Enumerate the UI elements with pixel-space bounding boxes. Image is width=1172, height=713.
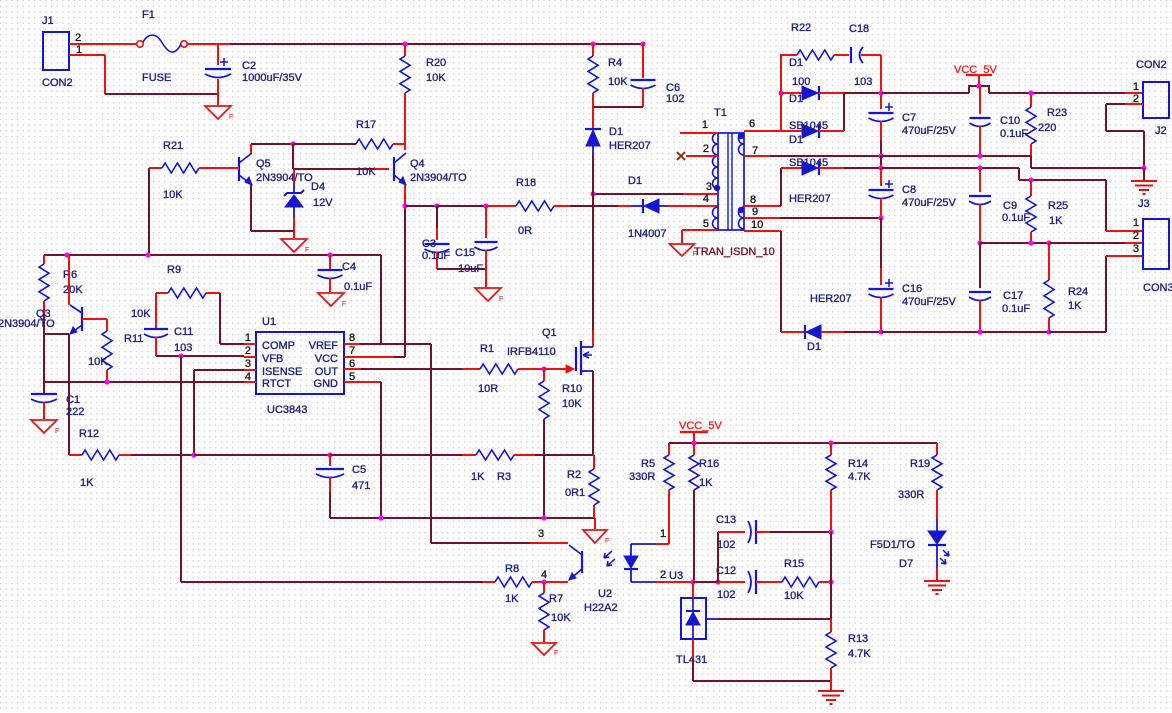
wire R6 to RTCT node — [43, 313, 45, 394]
diode D1 HER207 primary — [585, 107, 651, 155]
diode D1 1N4007 — [628, 175, 717, 240]
resistor R1 — [462, 343, 544, 395]
svg-text:330R: 330R — [629, 471, 655, 483]
svg-text:C17: C17 — [1003, 290, 1023, 302]
resistor R19 — [898, 443, 942, 519]
svg-text:2N3904/TO: 2N3904/TO — [0, 318, 55, 330]
wire out2 rail — [881, 167, 1019, 169]
wire ref down — [830, 532, 832, 582]
svg-text:12V: 12V — [313, 197, 333, 209]
wire R13 top — [830, 619, 832, 632]
svg-text:100: 100 — [792, 76, 810, 88]
svg-text:D1: D1 — [609, 126, 623, 138]
svg-text:103: 103 — [174, 342, 192, 354]
wire T1 pin7 — [744, 155, 770, 157]
svg-text:C12: C12 — [716, 565, 736, 577]
svg-text:470uF/25V: 470uF/25V — [902, 125, 956, 137]
wire emitter to D4 gnd — [251, 230, 294, 232]
svg-text:222: 222 — [66, 406, 84, 418]
wire pin3 stub — [683, 193, 717, 195]
svg-text:R8: R8 — [505, 563, 519, 575]
wire diode D anode — [821, 331, 844, 333]
wire diode B anode — [781, 130, 802, 132]
svg-text:2: 2 — [660, 569, 666, 581]
resistor R23 — [1026, 93, 1067, 156]
svg-text:R19: R19 — [910, 458, 930, 470]
svg-text:1: 1 — [1133, 81, 1139, 93]
connector J1 — [42, 15, 82, 89]
svg-text:2: 2 — [1133, 230, 1139, 242]
capacitor C8 — [869, 168, 957, 218]
svg-text:CON2: CON2 — [1136, 59, 1167, 71]
node VCC-aux junction — [402, 203, 407, 208]
svg-text:10K: 10K — [131, 308, 151, 320]
svg-text:10: 10 — [751, 219, 763, 231]
svg-text:R21: R21 — [163, 140, 183, 152]
resistor R24 — [1044, 243, 1088, 332]
capacitor C2 — [205, 44, 303, 94]
wire diode A anode — [781, 92, 802, 94]
capacitor C18 — [849, 23, 881, 88]
capacitor C9 — [969, 168, 1030, 243]
wire R4 C6 bottom — [593, 106, 643, 108]
wire U1 pin2 — [244, 356, 256, 358]
zener D4 — [284, 169, 333, 231]
node mid rail junction — [878, 165, 883, 170]
svg-text:C16: C16 — [902, 283, 922, 295]
wire neg rail — [881, 331, 1049, 333]
svg-text:D4: D4 — [311, 181, 325, 193]
svg-text:CON3: CON3 — [1143, 282, 1172, 294]
svg-text:FUSE: FUSE — [142, 72, 171, 84]
svg-text:4: 4 — [541, 569, 547, 581]
connector J3 — [1133, 217, 1172, 294]
wire down to earth — [1143, 131, 1145, 168]
ground C1 — [31, 420, 59, 435]
svg-text:RTCT: RTCT — [262, 378, 291, 390]
capacitor C6 — [631, 44, 685, 107]
wire C13 right — [770, 531, 831, 533]
svg-text:D7: D7 — [899, 558, 913, 570]
svg-text:R10: R10 — [562, 383, 582, 395]
svg-text:3: 3 — [1133, 243, 1139, 255]
svg-text:VFB: VFB — [262, 353, 283, 365]
svg-text:103: 103 — [854, 76, 872, 88]
wire U1 pin1 — [244, 343, 256, 345]
wire anode to gnd — [693, 680, 831, 682]
svg-text:2: 2 — [75, 32, 81, 44]
svg-text:ISENSE: ISENSE — [262, 366, 302, 378]
svg-text:R2: R2 — [567, 469, 581, 481]
svg-text:C13: C13 — [716, 514, 736, 526]
wire top bus — [230, 43, 643, 45]
wire diode A cathode — [819, 92, 844, 94]
svg-text:F: F — [342, 301, 346, 308]
wire C2 to ground — [217, 94, 219, 105]
svg-text:D1: D1 — [807, 341, 821, 353]
svg-text:GND: GND — [314, 378, 339, 390]
diode SB1045 C — [789, 157, 831, 205]
transistor Q3 — [0, 305, 82, 334]
svg-text:1K: 1K — [505, 593, 519, 605]
resistor R12 — [69, 428, 131, 489]
svg-text:1K: 1K — [699, 477, 713, 489]
wire diode D run — [844, 331, 881, 333]
wire C15 to ground — [485, 269, 487, 287]
wire U1 pin3 — [244, 369, 256, 371]
wire J3 pin3 up — [1105, 256, 1107, 332]
resistor R25 — [1026, 180, 1068, 243]
diode HER207 D — [805, 293, 852, 353]
opto U2 H22A2 — [538, 528, 666, 614]
svg-text:0.1uF: 0.1uF — [344, 281, 372, 293]
svg-text:5: 5 — [703, 218, 709, 230]
capacitor C1 — [31, 394, 84, 419]
node C7 junctions — [878, 90, 883, 158]
resistor R15 — [770, 558, 831, 602]
svg-text:9: 9 — [752, 206, 758, 218]
wire pin1 link — [220, 343, 244, 345]
svg-text:1K: 1K — [1049, 215, 1063, 227]
svg-text:C1: C1 — [66, 394, 80, 406]
svg-text:8: 8 — [349, 332, 355, 344]
svg-text:VREF: VREF — [309, 340, 339, 352]
svg-text:2: 2 — [245, 345, 251, 357]
wire pin10 to diode D — [781, 331, 805, 333]
wire J2 pin2 run — [1106, 103, 1125, 105]
svg-text:470uF/25V: 470uF/25V — [902, 197, 956, 209]
wire pin5 down — [681, 230, 683, 243]
wire J2 pin2 across — [1106, 130, 1144, 132]
node gate junction — [541, 366, 546, 371]
capacitor C17 — [969, 243, 1030, 332]
wire pin7 run — [770, 155, 881, 157]
svg-text:R3: R3 — [497, 471, 511, 483]
wire T1 pin10 — [744, 230, 781, 232]
wire Q5 collector up — [250, 144, 252, 153]
wire R3 to source — [535, 454, 594, 456]
node earth junction — [1141, 165, 1146, 170]
wire T1 pin8 — [744, 205, 781, 207]
wire TL431 anode — [692, 639, 694, 658]
svg-text:10uF: 10uF — [458, 263, 483, 275]
wire mid to J3 earth — [1031, 167, 1144, 169]
svg-text:HER207: HER207 — [789, 193, 831, 205]
resistor R9 — [131, 264, 220, 320]
wire bottom return — [105, 93, 218, 95]
resistor R11 — [88, 319, 143, 381]
wire pin3 line — [593, 193, 683, 195]
capacitor C3 — [422, 206, 450, 269]
svg-text:0R1: 0R1 — [565, 487, 585, 499]
resistor R16 — [689, 443, 719, 582]
wire R12 to pin3 — [131, 454, 194, 456]
wire Q5 collector to R17 — [251, 143, 293, 145]
svg-text:D1: D1 — [789, 93, 803, 105]
svg-text:4: 4 — [703, 193, 709, 205]
wire U1 pin4 — [244, 381, 256, 383]
svg-text:220: 220 — [1038, 122, 1056, 134]
diode D1 rectifier A — [789, 57, 819, 105]
svg-text:C9: C9 — [1003, 200, 1017, 212]
svg-text:R18: R18 — [516, 177, 536, 189]
svg-text:C7: C7 — [902, 112, 916, 124]
shunt regulator U3 TL431 — [669, 570, 717, 666]
node RTCT-R11 junction — [104, 379, 109, 384]
svg-text:F: F — [554, 650, 558, 657]
svg-text:0R: 0R — [518, 225, 532, 237]
node C9 bottom junction — [977, 240, 982, 245]
wire base line to Q4 — [293, 168, 389, 170]
ground R2 — [583, 518, 609, 545]
wire T1 pin5 — [682, 229, 718, 231]
wire 5V bus a — [881, 92, 969, 94]
wire pin8 link — [360, 343, 431, 345]
LED D7 — [870, 519, 949, 580]
capacitor C4 — [318, 255, 373, 293]
svg-text:UC3843: UC3843 — [267, 404, 307, 416]
wire C18 down — [880, 55, 882, 92]
svg-text:VCC_5V: VCC_5V — [954, 64, 997, 76]
svg-text:C3: C3 — [422, 238, 436, 250]
wire VREF corner down — [380, 255, 382, 344]
resistor R7 — [539, 582, 571, 642]
svg-text:R11: R11 — [124, 333, 143, 345]
svg-text:F: F — [305, 247, 309, 254]
wire mid jog down — [1030, 156, 1032, 168]
wire R9 right down — [219, 293, 221, 344]
wire T1 pin9 — [744, 217, 780, 219]
svg-text:1: 1 — [1133, 217, 1139, 229]
svg-text:1: 1 — [702, 119, 708, 131]
svg-text:8: 8 — [750, 194, 756, 206]
wire GND down — [380, 382, 382, 518]
resistor R20 — [400, 44, 446, 150]
svg-text:10K: 10K — [562, 398, 582, 410]
transistor Q5 — [239, 153, 313, 185]
wire Q3 emitter down — [68, 334, 70, 455]
node out2 junction — [977, 165, 982, 170]
svg-text:R20: R20 — [426, 57, 446, 69]
wire Q3 base — [82, 318, 107, 320]
wire C3 bottom — [437, 268, 486, 270]
node drain junction — [590, 191, 595, 196]
node R25 top junction — [1028, 177, 1033, 182]
wire cathodes link — [843, 93, 845, 131]
svg-text:C10: C10 — [1000, 115, 1020, 127]
svg-text:R17: R17 — [356, 119, 376, 131]
wire pin3 link — [194, 369, 244, 371]
svg-text:3: 3 — [245, 358, 251, 370]
capacitor C16 — [869, 218, 957, 332]
ground C2 — [205, 106, 233, 121]
wire mid rail b — [881, 155, 1031, 157]
wire RTCT line — [44, 381, 244, 383]
wire neg to J3 pin3 — [1049, 331, 1106, 333]
wire drain stub — [592, 330, 594, 347]
wire Q3 emitter left — [44, 333, 69, 335]
svg-text:J1: J1 — [42, 15, 54, 27]
wire J3 pin2 stub — [1125, 242, 1143, 244]
wire OUT line — [361, 368, 462, 370]
wire diode C anode — [781, 167, 802, 169]
svg-text:7: 7 — [349, 345, 355, 357]
wire opto pin1 stub — [656, 543, 669, 545]
svg-text:IRFB4110: IRFB4110 — [507, 346, 556, 358]
wire J2 pin1 stub — [1125, 92, 1143, 94]
node VFB junction — [178, 353, 183, 358]
svg-text:10R: 10R — [478, 383, 498, 395]
svg-text:F5D1/TO: F5D1/TO — [870, 539, 915, 551]
wire fb vcc rail — [669, 442, 937, 444]
label TRAN_ISDN_10 — [694, 246, 775, 258]
svg-text:HER207: HER207 — [810, 293, 852, 305]
svg-text:4.7K: 4.7K — [848, 648, 871, 660]
svg-text:C11: C11 — [174, 326, 193, 338]
node ISENSE junction — [191, 452, 196, 457]
svg-text:10K: 10K — [88, 356, 108, 368]
wire ISENSE to R3 — [330, 454, 462, 456]
svg-text:2N3904/TO: 2N3904/TO — [256, 172, 313, 184]
capacitor C12 — [716, 565, 770, 601]
svg-text:R23: R23 — [1047, 107, 1067, 119]
wire U1 pin5 GND — [344, 381, 381, 383]
svg-text:R9: R9 — [167, 264, 181, 276]
svg-text:TRAN_ISDN_10: TRAN_ISDN_10 — [694, 246, 775, 258]
svg-text:0.1uF: 0.1uF — [1000, 128, 1028, 140]
wire VCC vertical — [404, 206, 406, 357]
wire R18 to D1 — [570, 205, 618, 207]
wire D4 gnd stub — [293, 231, 295, 238]
wire opto collector stub — [530, 542, 554, 544]
node neg rail junctions — [977, 329, 1051, 334]
wire T1 pin1 — [680, 132, 718, 134]
capacitor C10 — [970, 86, 1029, 156]
svg-text:2N3904/TO: 2N3904/TO — [410, 172, 467, 184]
transistor Q4 — [394, 153, 467, 185]
wire D1 anode down — [592, 155, 594, 194]
ground TL431 earth — [818, 681, 844, 704]
node R23 top junction — [1028, 90, 1033, 95]
wire pin3 down — [193, 370, 195, 455]
svg-text:0.1uF: 0.1uF — [422, 250, 450, 262]
wire opto collector run — [431, 542, 530, 544]
wire opto collector drop — [430, 344, 432, 543]
resistor R4 — [588, 44, 628, 107]
resistor R5 — [629, 443, 674, 544]
wire J3 pin1 down — [1105, 180, 1107, 231]
resistor R17 — [356, 119, 405, 178]
wire Q1 source — [592, 371, 594, 455]
resistor R21 — [149, 140, 239, 201]
svg-text:102: 102 — [717, 539, 735, 551]
svg-text:F: F — [229, 114, 233, 121]
wire diode A to bus — [844, 92, 881, 94]
svg-text:102: 102 — [717, 589, 735, 601]
svg-text:Q5: Q5 — [256, 158, 271, 170]
wire Q5 emitter down — [250, 185, 252, 231]
wire drain vertical — [592, 194, 594, 330]
wire VREF rail — [44, 254, 381, 256]
svg-text:H22A2: H22A2 — [584, 602, 618, 614]
wire J1 pin1 — [69, 54, 105, 56]
wire opto pin2 run — [656, 581, 693, 583]
wire J1 pin2 to fuse — [69, 43, 137, 45]
svg-text:C15: C15 — [455, 247, 475, 259]
wire Q4 emitter — [404, 185, 406, 206]
wire J3 pin3 stub — [1106, 255, 1143, 257]
wire U1 pin7 — [344, 356, 394, 358]
node VREF junctions — [64, 252, 332, 257]
svg-text:VCC: VCC — [315, 353, 338, 365]
node Q5-R17 junction — [290, 141, 295, 146]
svg-text:0.1uF: 0.1uF — [1002, 303, 1030, 315]
svg-text:10K: 10K — [163, 189, 183, 201]
svg-text:J3: J3 — [1138, 198, 1150, 210]
svg-text:6: 6 — [749, 118, 755, 130]
svg-text:U3: U3 — [669, 570, 683, 582]
wire anode down — [692, 658, 694, 681]
svg-text:T1: T1 — [714, 107, 727, 119]
svg-text:R16: R16 — [699, 458, 719, 470]
wire pin7 link — [394, 356, 405, 358]
wire T1 pin2 — [686, 155, 718, 157]
svg-text:10K: 10K — [784, 590, 804, 602]
svg-text:1N4007: 1N4007 — [628, 228, 667, 240]
svg-text:R25: R25 — [1048, 200, 1068, 212]
svg-text:10K: 10K — [551, 612, 571, 624]
wire D1 stub — [618, 205, 631, 207]
wire aux node to C3 — [405, 205, 437, 207]
svg-text:1: 1 — [660, 528, 666, 540]
wire C3 to C15 node — [437, 205, 486, 207]
resistor R8 — [181, 563, 544, 605]
wire snubber drop — [780, 54, 782, 92]
svg-text:C2: C2 — [242, 60, 256, 72]
wire opto pin4 stub — [544, 581, 568, 583]
wire TL431 cathode — [692, 582, 694, 598]
svg-text:102: 102 — [666, 93, 684, 105]
power VCC_5V top — [954, 64, 997, 93]
wire base stub Q4 — [375, 168, 389, 170]
wire R17 left — [293, 143, 356, 145]
node ref junction — [828, 579, 833, 584]
svg-text:Q1: Q1 — [542, 327, 557, 339]
wire J3 pin1 stub — [1106, 230, 1143, 232]
wire node to D4 — [292, 144, 294, 169]
node top bus junctions — [402, 41, 645, 46]
capacitor C5 — [316, 455, 370, 492]
fuse F1 — [137, 9, 187, 84]
diode D1 rectifier B SB1045 — [789, 120, 828, 146]
svg-text:COMP: COMP — [262, 340, 295, 352]
node TL431 junctions — [690, 579, 720, 584]
svg-text:R22: R22 — [791, 22, 811, 34]
svg-text:C5: C5 — [352, 464, 366, 476]
svg-text:OUT: OUT — [315, 366, 339, 378]
wire GND rail — [330, 517, 594, 519]
wire fb node link — [693, 581, 718, 583]
wire pin6 drop — [780, 93, 782, 131]
svg-text:10K: 10K — [608, 76, 628, 88]
no-connect X pin2 — [677, 152, 685, 160]
op-amp U1 UC3843 body — [245, 316, 355, 416]
node C3 junction — [434, 203, 439, 208]
svg-text:1K: 1K — [80, 477, 94, 489]
svg-text:VCC_5V: VCC_5V — [679, 420, 722, 432]
svg-text:D1: D1 — [789, 57, 803, 69]
ground C15 — [475, 288, 503, 303]
